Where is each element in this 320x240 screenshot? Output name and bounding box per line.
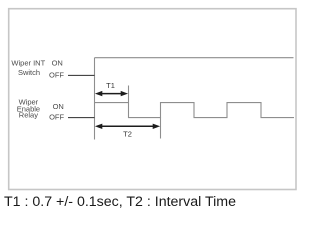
svg-text:OFF: OFF bbox=[49, 113, 64, 122]
svg-text:T1 : 0.7 +/- 0.1sec, T2 : Inte: T1 : 0.7 +/- 0.1sec, T2 : Interval Time bbox=[4, 194, 236, 210]
svg-text:Switch: Switch bbox=[18, 68, 40, 77]
svg-text:T2: T2 bbox=[123, 130, 132, 139]
svg-text:Relay: Relay bbox=[19, 111, 38, 120]
svg-text:ON: ON bbox=[52, 59, 63, 68]
svg-text:OFF: OFF bbox=[49, 71, 64, 80]
svg-text:ON: ON bbox=[53, 102, 64, 111]
svg-text:Wiper INT: Wiper INT bbox=[11, 59, 45, 68]
svg-text:T1: T1 bbox=[106, 81, 115, 90]
